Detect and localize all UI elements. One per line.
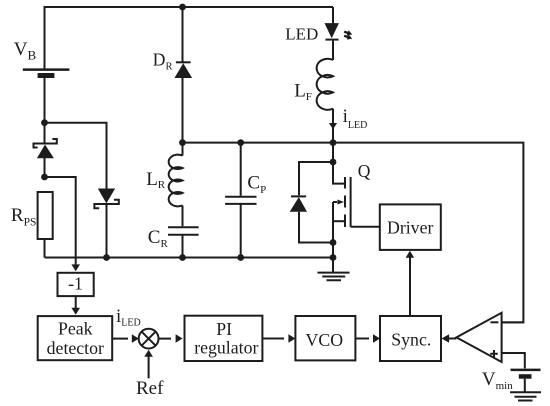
svg-text:LR: LR [146,169,166,191]
svg-text:DR: DR [153,49,173,72]
svg-text:Driver: Driver [387,217,433,237]
svg-text:VCO: VCO [306,330,344,350]
svg-text:LED: LED [285,25,318,44]
svg-text:Peak: Peak [58,319,93,339]
svg-text:PI: PI [216,319,232,339]
svg-text:CP: CP [247,173,266,196]
svg-text:LF: LF [294,80,312,103]
svg-text:iLED: iLED [116,306,141,329]
svg-text:detector: detector [47,338,104,358]
svg-text:RPS: RPS [11,205,36,228]
svg-text:regulator: regulator [194,337,258,357]
svg-text:Sync.: Sync. [391,329,431,349]
svg-text:VB: VB [14,39,37,63]
svg-text:CR: CR [148,227,169,250]
svg-text:-1: -1 [68,274,83,294]
svg-text:Ref: Ref [136,378,164,399]
svg-text:Q: Q [358,161,371,181]
svg-text:iLED: iLED [343,106,368,131]
svg-text:Vmin: Vmin [482,369,513,392]
